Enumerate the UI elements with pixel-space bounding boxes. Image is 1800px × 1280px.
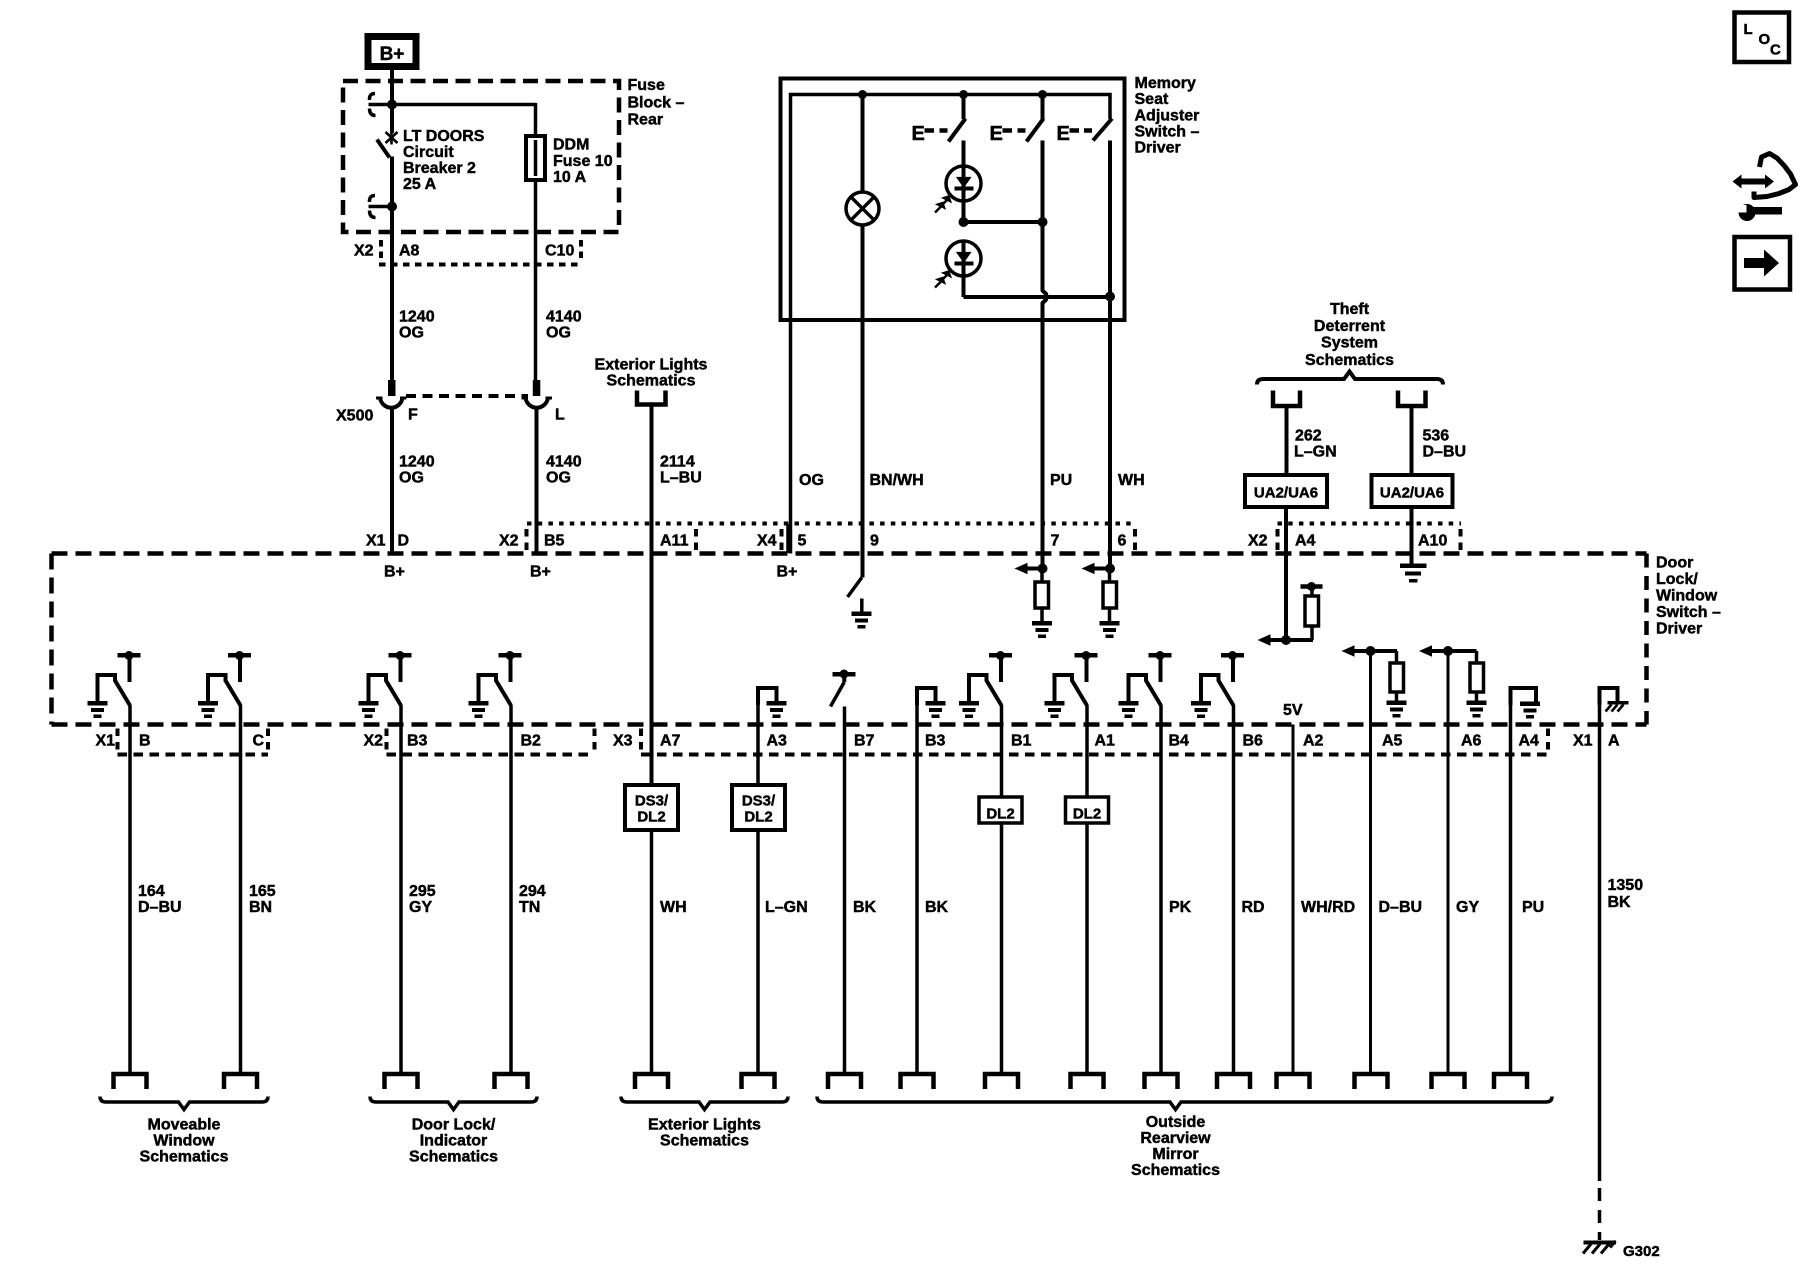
svg-text:BK: BK	[1608, 894, 1632, 911]
node A5 junction	[1366, 646, 1376, 656]
svg-text:X2: X2	[499, 533, 519, 550]
switch S4 door lock pin B2 fixed contact	[499, 653, 522, 658]
off-page terminal B4	[1145, 1074, 1178, 1089]
wire RD pin B6	[1232, 705, 1236, 1074]
svg-text:TN: TN	[519, 899, 540, 916]
switch S5 mirror pin B1 fixed contact	[989, 653, 1012, 658]
svg-text:E: E	[1057, 123, 1070, 145]
chassis ground G302	[1584, 1241, 1617, 1245]
circuit breaker CB2 blade	[377, 140, 390, 158]
svg-text:A6: A6	[1461, 733, 1482, 750]
circuit breaker CB2 bottom contact hook	[369, 196, 375, 218]
svg-text:L–BU: L–BU	[660, 470, 702, 487]
svg-text:295: 295	[409, 883, 436, 900]
svg-text:DDM: DDM	[553, 137, 589, 154]
connector tick X2-B5	[525, 529, 529, 550]
svg-text:Seat: Seat	[1135, 91, 1169, 108]
RPO code box UA2/UA6 right	[1372, 475, 1453, 507]
svg-text:L–GN: L–GN	[765, 899, 808, 916]
svg-text:Schematics: Schematics	[607, 373, 696, 390]
switch pin 9 dome lamp	[848, 578, 862, 598]
svg-text:B6: B6	[1243, 733, 1264, 750]
switch S7 mirror pin B4 blade and ground bracket	[1129, 675, 1147, 701]
svg-text:Indicator: Indicator	[420, 1133, 488, 1150]
splice box DL2 on B1	[1000, 705, 1004, 797]
wire 4140 OG to pin B5	[535, 408, 539, 554]
svg-text:Memory: Memory	[1135, 75, 1196, 92]
svg-text:X3: X3	[613, 733, 633, 750]
internal B+ bus rail	[791, 95, 1111, 321]
ground hook pin B3 mid	[917, 688, 936, 705]
svg-text:Door: Door	[1656, 555, 1693, 572]
node breaker bottom junction	[387, 202, 397, 212]
switch S1 window up/down pin B blade and ground bracket	[98, 675, 116, 701]
off-page terminal A4	[1494, 1074, 1527, 1089]
wire switch E2 to pin 7 with crossover jog	[1043, 141, 1047, 569]
wire WH pin A7 lower	[650, 830, 654, 1074]
svg-text:X4: X4	[757, 533, 777, 550]
wire A4 into door lock switch	[1284, 507, 1288, 640]
svg-text:L: L	[1744, 21, 1753, 38]
splice box DS3/DL2 on A3	[732, 785, 785, 830]
svg-text:Moveable: Moveable	[148, 1117, 221, 1134]
svg-text:Exterior Lights: Exterior Lights	[595, 357, 708, 374]
ground hook pin A4 right	[1511, 688, 1537, 705]
svg-text:1350: 1350	[1608, 877, 1644, 894]
brace theft deterrent	[1257, 372, 1443, 385]
svg-text:E: E	[912, 123, 925, 145]
svg-text:Theft: Theft	[1330, 301, 1370, 318]
connector tick X4	[780, 529, 784, 550]
resistor A6	[1470, 663, 1484, 692]
switch S2 window pin C fixed contact	[228, 653, 251, 658]
svg-text:C: C	[253, 733, 265, 750]
brace moveable window	[100, 1097, 268, 1110]
svg-text:164: 164	[138, 883, 165, 900]
wire pin B1 lower	[1000, 823, 1004, 1074]
node rail switch2 tap	[1038, 90, 1047, 99]
wire 295 GY pin B3	[399, 705, 403, 1074]
component box Memory Seat Adjuster Switch - Driver	[781, 79, 1125, 321]
svg-text:Switch –: Switch –	[1656, 604, 1721, 621]
connector dotted line group 1	[118, 753, 269, 757]
connector X500 pin L	[533, 380, 541, 396]
svg-text:4140: 4140	[546, 309, 582, 326]
RPO code box UA2/UA6 left	[1245, 475, 1327, 507]
LED DS2	[946, 241, 981, 276]
wire 1240 OG to pin D	[390, 408, 394, 554]
ground S6 mirror pin A1 bracket	[1045, 701, 1065, 706]
signal arrow pin 6	[1092, 567, 1110, 571]
svg-text:Driver: Driver	[1656, 621, 1702, 638]
resistor A4 pullup	[1310, 626, 1314, 640]
ground A10	[1400, 564, 1427, 569]
switch S4 door lock pin B2 blade and ground bracket	[479, 675, 497, 701]
svg-text:Block –: Block –	[628, 95, 685, 112]
svg-text:Mirror: Mirror	[1152, 1146, 1198, 1163]
svg-text:B1: B1	[1011, 733, 1032, 750]
svg-text:E: E	[990, 123, 1003, 145]
wire pin A6	[1447, 651, 1450, 1074]
svg-text:DL2: DL2	[986, 806, 1014, 823]
svg-text:GY: GY	[409, 899, 432, 916]
svg-text:X2: X2	[1248, 533, 1268, 550]
svg-text:LT DOORS: LT DOORS	[403, 128, 485, 145]
connector tick C10 end	[579, 240, 583, 261]
svg-text:Deterrent: Deterrent	[1314, 318, 1386, 335]
svg-text:7: 7	[1051, 533, 1060, 550]
switch S8 mirror pin B6 blade and ground bracket	[1201, 675, 1219, 701]
svg-text:X500: X500	[336, 408, 373, 425]
svg-text:X2: X2	[364, 733, 384, 750]
connector tick X2-A4	[1276, 529, 1280, 550]
svg-text:A1: A1	[1095, 733, 1116, 750]
svg-text:WH: WH	[660, 899, 687, 916]
svg-text:A5: A5	[1382, 733, 1403, 750]
svg-text:PK: PK	[1169, 899, 1192, 916]
svg-text:DL2: DL2	[637, 809, 665, 826]
ground hook pin A3	[758, 688, 777, 705]
svg-text:PU: PU	[1522, 899, 1544, 916]
svg-text:A4: A4	[1295, 533, 1316, 550]
svg-text:25 A: 25 A	[403, 176, 437, 193]
component box Door Lock/Window Switch - Driver	[52, 551, 1647, 556]
ground A6 resistor	[1467, 701, 1487, 706]
ground S2 window pin C bracket	[198, 701, 218, 706]
connector dotted line group 2	[387, 753, 595, 757]
circuit breaker CB2 thermal asterisk	[386, 132, 398, 143]
svg-text:X1: X1	[366, 533, 386, 550]
icon wrench	[1739, 204, 1756, 221]
node pin 6 junction	[1105, 564, 1115, 574]
off-page terminal B7	[828, 1074, 861, 1089]
wire 262 L-GN	[1285, 406, 1289, 475]
svg-text:A4: A4	[1519, 733, 1540, 750]
resistor pin 7	[1040, 569, 1044, 583]
splice box DS3/DL2 on A7	[625, 785, 678, 830]
svg-text:B3: B3	[407, 733, 428, 750]
off-page terminal B1	[985, 1074, 1018, 1089]
svg-text:Breaker 2: Breaker 2	[403, 160, 476, 177]
switch S6 mirror pin A1 blade and ground bracket	[1055, 675, 1073, 701]
svg-text:Schematics: Schematics	[409, 1149, 498, 1166]
resistor pin 6	[1108, 569, 1112, 583]
brace door lock indicator	[370, 1097, 537, 1110]
off-page reference right to theft deterrent	[1398, 391, 1426, 407]
svg-text:System: System	[1321, 335, 1378, 352]
wire dashed to G302	[1598, 1188, 1602, 1240]
off-page terminal B3m	[901, 1074, 934, 1089]
connector X500 dashed link	[406, 394, 528, 398]
wire lamp to pin 9	[861, 225, 865, 578]
power symbol B+	[365, 33, 420, 70]
node pin 7 junction	[1038, 564, 1048, 574]
off-page terminal C	[224, 1074, 257, 1089]
svg-text:UA2/UA6: UA2/UA6	[1254, 485, 1318, 502]
svg-text:B2: B2	[521, 733, 542, 750]
switch S3 door lock pin B3 fixed contact	[389, 653, 412, 658]
connector tick X2-A8	[379, 240, 383, 261]
svg-text:A3: A3	[767, 733, 788, 750]
signal arrow A5	[1346, 649, 1397, 653]
svg-text:B5: B5	[544, 533, 565, 550]
connector tick A10 end	[1459, 529, 1463, 550]
wire pin A to G302	[1598, 700, 1602, 1181]
node A4 theft input junction	[1281, 635, 1291, 645]
wire pin B3 mid	[915, 700, 919, 1074]
svg-text:294: 294	[519, 883, 546, 900]
off-page reference left to theft deterrent	[1273, 391, 1300, 407]
wire pin B7	[843, 707, 847, 1075]
icon double arrow squiggle	[1739, 179, 1768, 185]
svg-text:B4: B4	[1169, 733, 1190, 750]
circuit breaker CB2 top contact hook	[369, 94, 375, 116]
svg-text:BN: BN	[249, 899, 272, 916]
switch pin B7 momentary	[833, 672, 856, 677]
ground S1 window up/down pin B bracket	[88, 701, 108, 706]
switch S5 mirror pin B1 blade and ground bracket	[969, 675, 987, 701]
icon forward arrow box	[1735, 237, 1791, 290]
wire 164 D-BU pin B	[128, 705, 132, 1074]
svg-text:D: D	[398, 533, 410, 550]
svg-text:X1: X1	[1573, 733, 1593, 750]
chassis ground hook pin A	[1600, 688, 1618, 705]
splice box DL2 on A1	[1085, 705, 1089, 797]
wire PK pin B4	[1159, 705, 1163, 1074]
svg-text:A10: A10	[1418, 533, 1447, 550]
ground pin A4	[1520, 702, 1540, 707]
svg-text:Lock/: Lock/	[1656, 571, 1698, 588]
switch S8 mirror pin B6 fixed contact	[1221, 653, 1244, 658]
svg-text:Window: Window	[1656, 588, 1718, 605]
svg-text:B+: B+	[380, 44, 405, 65]
node LED return junction	[1105, 292, 1115, 302]
switch S1 window up/down pin B fixed contact	[118, 653, 141, 658]
connector tick A11	[694, 529, 698, 550]
svg-text:A: A	[1608, 733, 1620, 750]
ground A5 resistor	[1387, 701, 1407, 706]
svg-text:DL2: DL2	[744, 809, 772, 826]
svg-text:Outside: Outside	[1146, 1114, 1206, 1131]
svg-text:Circuit: Circuit	[403, 144, 454, 161]
ground pin B3 mid	[926, 701, 946, 706]
svg-text:GY: GY	[1456, 899, 1479, 916]
svg-text:OG: OG	[546, 325, 571, 342]
node A6 junction	[1443, 646, 1453, 656]
node on switch2 wire	[1038, 217, 1048, 227]
svg-text:BK: BK	[925, 899, 949, 916]
svg-text:Switch –: Switch –	[1135, 124, 1200, 141]
svg-text:C: C	[1770, 42, 1781, 59]
off-page terminal A7	[635, 1074, 668, 1089]
lamp illumination	[846, 192, 879, 225]
svg-text:2114: 2114	[660, 454, 695, 471]
switch S7 mirror pin B4 fixed contact	[1149, 653, 1172, 658]
svg-text:Rear: Rear	[628, 112, 664, 129]
off-page terminal B6	[1217, 1074, 1250, 1089]
off-page terminal B3	[385, 1074, 418, 1089]
fuse DDM Fuse 10	[526, 136, 545, 180]
fuse block rear dashed box	[343, 81, 619, 232]
connector tick X2-B3	[385, 729, 389, 751]
connector tick pin6 end	[1133, 529, 1137, 550]
svg-text:UA2/UA6: UA2/UA6	[1380, 485, 1444, 502]
ground S3 door lock pin B3 bracket	[359, 701, 379, 706]
svg-text:BK: BK	[853, 899, 877, 916]
node breaker top junction	[387, 100, 397, 110]
wire rail to lamp	[861, 95, 865, 193]
svg-text:Driver: Driver	[1135, 140, 1181, 157]
svg-text:A8: A8	[399, 243, 420, 260]
wire pin 5 B+ feed	[789, 318, 793, 554]
wire A10 to ground	[1410, 507, 1414, 564]
signal arrow A6	[1424, 649, 1477, 653]
ground pin 7 resistor	[1032, 621, 1052, 626]
signal arrow pin 7	[1025, 567, 1043, 571]
ground S7 mirror pin B4 bracket	[1119, 701, 1139, 706]
icon LOC box	[1735, 13, 1790, 63]
svg-text:B: B	[139, 733, 151, 750]
svg-text:D–BU: D–BU	[1423, 444, 1467, 461]
svg-text:X2: X2	[354, 243, 374, 260]
svg-text:F: F	[408, 407, 418, 424]
wire B+ to breaker	[390, 70, 394, 133]
svg-text:5: 5	[798, 533, 807, 550]
svg-text:6: 6	[1118, 533, 1127, 550]
svg-text:O: O	[1759, 31, 1771, 48]
svg-text:WH: WH	[1118, 472, 1145, 489]
wire pin A2	[1292, 725, 1295, 1075]
svg-text:Schematics: Schematics	[660, 1133, 749, 1150]
svg-text:Fuse: Fuse	[628, 77, 665, 94]
svg-text:OG: OG	[546, 470, 571, 487]
off-page terminal A6	[1432, 1074, 1465, 1089]
svg-text:Schematics: Schematics	[1131, 1162, 1220, 1179]
svg-text:Window: Window	[153, 1133, 215, 1150]
node rail switch1 tap	[959, 90, 968, 99]
svg-text:4140: 4140	[546, 454, 582, 471]
wire 294 TN pin B2	[509, 705, 513, 1074]
svg-text:10 A: 10 A	[553, 169, 587, 186]
svg-text:D–BU: D–BU	[138, 899, 182, 916]
off-page terminal B	[114, 1074, 147, 1089]
svg-text:165: 165	[249, 883, 276, 900]
svg-text:5V: 5V	[1283, 702, 1303, 719]
node LED1 cathode junction	[959, 217, 969, 227]
switch S3 door lock pin B3 blade and ground bracket	[369, 675, 387, 701]
wire switch E3 to pin 6	[1108, 141, 1112, 569]
svg-text:Rearview: Rearview	[1140, 1130, 1211, 1147]
wire 165 BN pin C	[239, 705, 243, 1074]
wire fuse to C10	[534, 180, 538, 381]
wire LED1 junction to switch2 wire	[964, 220, 1043, 224]
connector tick A4 end	[1546, 729, 1550, 751]
svg-text:L–GN: L–GN	[1294, 444, 1337, 461]
svg-text:A2: A2	[1303, 733, 1324, 750]
wire pin A5	[1369, 651, 1372, 1074]
connector dotted line top row left section	[527, 522, 1135, 526]
off-page terminal A5	[1355, 1074, 1388, 1089]
svg-text:WH/RD: WH/RD	[1301, 899, 1355, 916]
svg-text:X1: X1	[96, 733, 116, 750]
switch S6 mirror pin A1 fixed contact	[1075, 653, 1098, 658]
off-page terminal B2	[495, 1074, 528, 1089]
wire pin A1 lower	[1085, 823, 1089, 1074]
wire branch to DDM fuse	[392, 103, 536, 107]
switch S2 window pin C blade and ground bracket	[208, 675, 226, 701]
svg-text:Fuse 10: Fuse 10	[553, 153, 613, 170]
connector tick X3-A7	[639, 729, 643, 751]
svg-text:262: 262	[1295, 428, 1322, 445]
ground S8 mirror pin B6 bracket	[1191, 701, 1211, 706]
svg-text:C10: C10	[545, 243, 574, 260]
svg-text:A7: A7	[660, 733, 681, 750]
wire 536 D-BU	[1410, 406, 1414, 475]
wire switch E1 to LED1	[962, 141, 966, 168]
wire L-GN pin A3 lower	[756, 830, 760, 1074]
svg-text:G302: G302	[1623, 1243, 1660, 1260]
connector dotted line X2 row	[379, 263, 583, 267]
svg-text:Schematics: Schematics	[1305, 352, 1394, 369]
connector shell step X4	[786, 524, 790, 553]
svg-text:B+: B+	[777, 564, 798, 581]
signal arrow A4 input	[1262, 638, 1313, 642]
supply bar A4 pullup	[1301, 584, 1323, 589]
svg-text:BN/WH: BN/WH	[870, 472, 924, 489]
svg-text:B7: B7	[854, 733, 875, 750]
svg-text:OG: OG	[399, 325, 424, 342]
node rail lamp tap	[858, 90, 867, 99]
wire 2114 L-BU to pin A11	[650, 404, 654, 785]
wire pin A3 upper	[756, 700, 760, 785]
brace outside rearview mirror	[817, 1097, 1552, 1110]
ground S4 door lock pin B2 bracket	[469, 701, 489, 706]
svg-text:L: L	[555, 407, 565, 424]
svg-text:D–BU: D–BU	[1379, 899, 1423, 916]
svg-text:OG: OG	[799, 472, 824, 489]
ground pin 6 resistor	[1100, 621, 1120, 626]
connector X500 pin F	[388, 380, 396, 396]
off-page terminal A1	[1071, 1074, 1104, 1089]
svg-text:B+: B+	[384, 564, 405, 581]
ground pin A3	[767, 701, 787, 706]
svg-text:DS3/: DS3/	[635, 793, 669, 810]
svg-text:RD: RD	[1242, 899, 1265, 916]
svg-text:B+: B+	[530, 564, 551, 581]
connector dotted line group 3	[641, 753, 1548, 757]
brace exterior lights	[621, 1097, 788, 1110]
off-page terminal A2	[1277, 1074, 1310, 1089]
ground pin 9 switch	[852, 612, 872, 617]
svg-text:1240: 1240	[399, 454, 435, 471]
connector tick B2 end	[593, 729, 597, 751]
wire LED2 to switch3 wire	[964, 295, 1111, 299]
wire breaker to A8	[390, 157, 394, 382]
svg-text:DL2: DL2	[1073, 806, 1101, 823]
connector dotted line top row right section	[1278, 522, 1462, 526]
svg-text:DS3/: DS3/	[742, 793, 776, 810]
resistor A5	[1390, 663, 1404, 692]
svg-text:B3: B3	[925, 733, 946, 750]
svg-text:OG: OG	[399, 470, 424, 487]
svg-text:Schematics: Schematics	[140, 1149, 229, 1166]
switch E2 memory	[1041, 95, 1045, 120]
connector tick C end	[266, 729, 270, 751]
svg-text:536: 536	[1423, 428, 1450, 445]
svg-text:Door Lock/: Door Lock/	[412, 1117, 496, 1134]
svg-text:Adjuster: Adjuster	[1135, 108, 1200, 125]
off-page terminal A3	[742, 1074, 775, 1089]
